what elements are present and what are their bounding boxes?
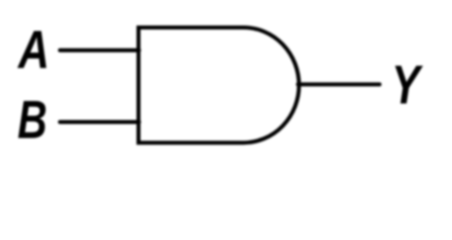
wire Y (gate output) xyxy=(298,82,380,86)
svg-text:Y: Y xyxy=(392,56,424,116)
AND gate U1 body xyxy=(139,28,300,143)
svg-text:B: B xyxy=(18,91,48,151)
wire B (input B to gate) xyxy=(60,120,139,124)
wire A (input A to gate) xyxy=(60,48,139,52)
svg-text:A: A xyxy=(17,21,49,81)
